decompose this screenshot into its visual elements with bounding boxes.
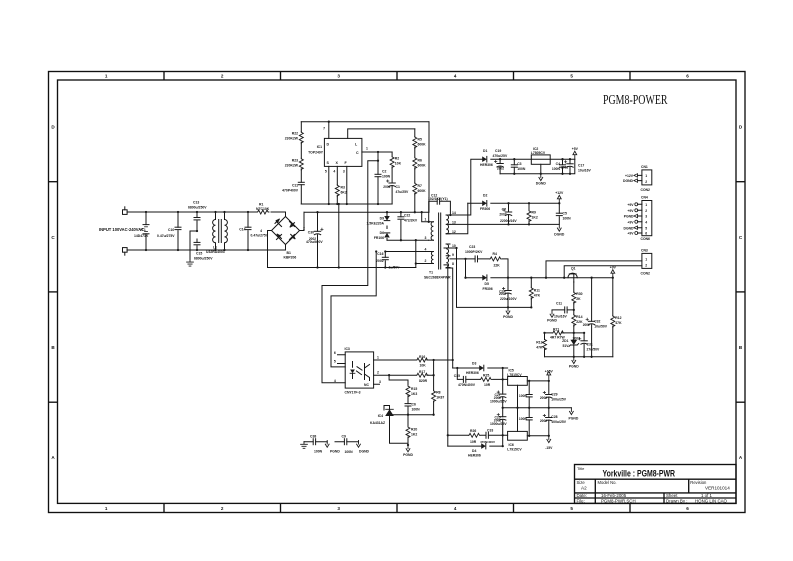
svg-text:C9: C9 — [342, 435, 346, 439]
svg-text:1: 1 — [645, 203, 647, 207]
svg-text:3: 3 — [337, 74, 340, 79]
svg-text:PGND: PGND — [569, 364, 579, 368]
svg-text:472/2KV: 472/2KV — [404, 219, 418, 223]
svg-text:1u/50V: 1u/50V — [389, 266, 401, 270]
svg-text:C29: C29 — [551, 392, 557, 396]
svg-text:2002: 2002 — [561, 166, 568, 170]
svg-text:10R: 10R — [484, 383, 491, 387]
svg-text:1 of 1: 1 of 1 — [701, 493, 713, 498]
svg-text:51V: 51V — [562, 344, 569, 348]
svg-text:2002: 2002 — [572, 337, 580, 341]
svg-text:2002: 2002 — [376, 259, 384, 263]
svg-text:470u/25V: 470u/25V — [493, 154, 508, 158]
svg-text:1: 1 — [425, 218, 427, 222]
svg-text:470P400V: 470P400V — [282, 189, 299, 193]
svg-text:6800u/250V: 6800u/250V — [188, 205, 207, 209]
svg-text:100N: 100N — [517, 167, 526, 171]
svg-text:2002: 2002 — [499, 292, 506, 296]
svg-text:PGM8-POWER: PGM8-POWER — [603, 93, 668, 108]
svg-text:6800u/250V: 6800u/250V — [194, 256, 213, 260]
svg-text:SEC2688X4PWR: SEC2688X4PWR — [424, 276, 451, 280]
svg-text:L1: L1 — [213, 245, 217, 249]
svg-text:4: 4 — [260, 229, 262, 233]
svg-text:CN4: CN4 — [641, 195, 648, 199]
svg-text:100N: 100N — [345, 450, 354, 454]
svg-text:C31: C31 — [587, 343, 593, 347]
svg-text:820R: 820R — [419, 379, 428, 383]
svg-text:8: 8 — [452, 262, 454, 266]
svg-text:0.47u/275V: 0.47u/275V — [157, 234, 175, 238]
svg-text:2002: 2002 — [309, 237, 316, 241]
svg-text:1: 1 — [645, 174, 647, 178]
svg-text:22K: 22K — [494, 263, 501, 267]
svg-text:PGND: PGND — [403, 453, 413, 457]
svg-text:4: 4 — [425, 248, 427, 252]
svg-text:R30: R30 — [576, 292, 582, 296]
svg-text:5: 5 — [645, 226, 647, 230]
svg-text:600K: 600K — [418, 164, 427, 168]
svg-text:D9: D9 — [380, 217, 384, 221]
svg-text:CON2: CON2 — [641, 188, 651, 192]
svg-text:C2: C2 — [382, 170, 386, 174]
svg-text:+9V: +9V — [627, 203, 634, 207]
svg-text:0.47u/275V: 0.47u/275V — [251, 234, 269, 238]
svg-text:4: 4 — [454, 74, 457, 79]
svg-text:10: 10 — [452, 244, 456, 248]
svg-text:C1: C1 — [396, 185, 400, 189]
svg-text:5: 5 — [325, 170, 327, 174]
svg-text:IC4: IC4 — [378, 414, 383, 418]
svg-text:470N/400V: 470N/400V — [458, 383, 476, 387]
svg-text:1: 1 — [366, 147, 368, 151]
svg-text:6K2: 6K2 — [341, 191, 347, 195]
svg-text:Title: Title — [577, 466, 585, 471]
svg-text:D: D — [327, 143, 330, 147]
svg-text:C13: C13 — [193, 201, 199, 205]
svg-text:12: 12 — [452, 230, 456, 234]
svg-text:C15: C15 — [196, 252, 202, 256]
svg-text:100N: 100N — [314, 449, 323, 453]
svg-text:R7: R7 — [418, 184, 422, 188]
svg-text:D2: D2 — [483, 194, 487, 198]
svg-text:1K2: 1K2 — [532, 216, 538, 220]
svg-text:470N/400V: 470N/400V — [480, 440, 495, 444]
svg-text:47K: 47K — [615, 321, 622, 325]
svg-text:2: 2 — [221, 74, 224, 79]
svg-text:Revision: Revision — [690, 480, 707, 485]
svg-text:R2: R2 — [395, 157, 399, 161]
svg-text:2002: 2002 — [494, 396, 501, 400]
svg-text:100N: 100N — [412, 408, 421, 412]
svg-text:2002: 2002 — [540, 419, 547, 423]
svg-text:10R: 10R — [470, 440, 477, 444]
svg-text:14D471K: 14D471K — [134, 234, 149, 238]
svg-text:6: 6 — [686, 74, 689, 79]
svg-text:T1: T1 — [429, 271, 433, 275]
svg-text:3: 3 — [343, 170, 345, 174]
svg-text:L7915CV: L7915CV — [507, 447, 522, 451]
svg-text:L7815CV: L7815CV — [507, 373, 522, 377]
svg-text:2: 2 — [221, 506, 224, 511]
svg-text:5: 5 — [334, 360, 336, 364]
svg-text:PGM8-PWR.SCH: PGM8-PWR.SCH — [601, 498, 636, 503]
svg-text:Size: Size — [577, 480, 586, 485]
svg-text:1000u/25V: 1000u/25V — [490, 422, 507, 426]
svg-text:+9V: +9V — [627, 220, 634, 224]
svg-text:2: 2 — [377, 371, 379, 375]
svg-text:600K: 600K — [418, 143, 427, 147]
svg-text:R20: R20 — [411, 428, 417, 432]
svg-text:4: 4 — [454, 506, 457, 511]
svg-text:13: 13 — [452, 220, 456, 224]
svg-text:R22: R22 — [292, 132, 298, 136]
svg-text:C23: C23 — [469, 245, 475, 249]
svg-text:C4: C4 — [556, 162, 560, 166]
svg-text:Yorkville : PGM8-PWR: Yorkville : PGM8-PWR — [603, 468, 676, 478]
svg-text:C16: C16 — [377, 252, 383, 256]
svg-text:2: 2 — [645, 264, 647, 268]
svg-text:C5: C5 — [563, 212, 567, 216]
svg-text:INPUT 100VAC-240VAC: INPUT 100VAC-240VAC — [99, 227, 144, 232]
svg-text:1: 1 — [377, 355, 379, 359]
svg-text:C7: C7 — [502, 208, 506, 212]
svg-text:FR106: FR106 — [374, 236, 384, 240]
svg-text:HER306: HER306 — [468, 454, 481, 458]
svg-text:D6: D6 — [380, 231, 384, 235]
svg-text:CNY17F-3: CNY17F-3 — [345, 390, 361, 394]
svg-text:C30: C30 — [308, 231, 314, 235]
svg-text:100N: 100N — [519, 417, 528, 421]
svg-text:R15: R15 — [411, 387, 417, 391]
svg-text:3: 3 — [337, 506, 340, 511]
svg-text:Sheet: Sheet — [666, 493, 678, 498]
svg-text:CON2: CON2 — [641, 271, 651, 275]
svg-text:R26: R26 — [470, 429, 476, 433]
svg-text:220u/100V: 220u/100V — [500, 297, 517, 301]
svg-text:C11: C11 — [292, 184, 298, 188]
svg-text:PGND: PGND — [503, 315, 513, 319]
svg-text:R23: R23 — [292, 159, 298, 163]
svg-text:C19: C19 — [495, 149, 501, 153]
svg-text:R8: R8 — [436, 391, 440, 395]
svg-text:PGND: PGND — [330, 449, 340, 453]
svg-text:TOP249Y: TOP249Y — [308, 151, 324, 155]
svg-text:10u/50V: 10u/50V — [594, 325, 608, 329]
svg-text:PGND: PGND — [547, 319, 557, 323]
svg-text:2K: 2K — [576, 297, 581, 301]
svg-text:1K2: 1K2 — [411, 433, 417, 437]
svg-text:R16: R16 — [419, 355, 425, 359]
svg-text:CON6: CON6 — [641, 237, 651, 241]
svg-text:FR306: FR306 — [483, 287, 493, 291]
svg-text:VER101014: VER101014 — [705, 486, 730, 491]
svg-text:IC6: IC6 — [509, 443, 514, 447]
svg-text:6: 6 — [334, 351, 336, 355]
svg-text:230K2W: 230K2W — [285, 137, 299, 141]
svg-text:CN1: CN1 — [641, 165, 648, 169]
svg-text:230K2W: 230K2W — [285, 164, 299, 168]
svg-text:ZD1: ZD1 — [562, 339, 569, 343]
svg-text:C28: C28 — [551, 415, 557, 419]
svg-text:DGND: DGND — [554, 233, 565, 237]
svg-text:R5: R5 — [418, 138, 422, 142]
svg-text:C35: C35 — [454, 374, 460, 378]
svg-text:C22: C22 — [404, 214, 410, 218]
svg-text:7: 7 — [323, 127, 325, 131]
svg-text:C6: C6 — [412, 403, 416, 407]
svg-text:R11: R11 — [534, 289, 540, 293]
svg-text:3: 3 — [379, 380, 381, 384]
svg-text:100u/25V: 100u/25V — [551, 397, 566, 401]
svg-text:D5: D5 — [485, 282, 489, 286]
svg-text:Model No.: Model No. — [598, 480, 617, 485]
svg-text:2002: 2002 — [494, 418, 501, 422]
svg-text:100N: 100N — [382, 175, 391, 179]
svg-text:DGND: DGND — [623, 179, 634, 183]
svg-text:2: 2 — [645, 209, 647, 213]
svg-text:KBP206: KBP206 — [284, 256, 297, 260]
svg-text:4: 4 — [334, 379, 336, 383]
svg-text:C38: C38 — [310, 435, 316, 439]
svg-text:FR306: FR306 — [480, 207, 490, 211]
svg-text:2002: 2002 — [497, 167, 504, 171]
svg-text:100N: 100N — [552, 167, 561, 171]
svg-text:File:: File: — [577, 498, 585, 503]
svg-text:14: 14 — [452, 211, 456, 215]
svg-text:Q1: Q1 — [571, 267, 576, 271]
svg-text:10K: 10K — [395, 162, 402, 166]
svg-text:C3: C3 — [517, 162, 521, 166]
svg-text:100N: 100N — [519, 394, 528, 398]
svg-text:VT1: VT1 — [140, 228, 146, 232]
svg-text:R21: R21 — [553, 327, 559, 331]
svg-text:2002: 2002 — [499, 213, 506, 217]
svg-text:47u/25V: 47u/25V — [396, 190, 410, 194]
svg-text:3: 3 — [425, 236, 427, 240]
svg-text:DGND: DGND — [536, 182, 547, 186]
svg-text:C32: C32 — [594, 320, 600, 324]
svg-text:R3: R3 — [341, 186, 345, 190]
svg-text:D1: D1 — [483, 149, 487, 153]
svg-text:NTC10K: NTC10K — [256, 207, 270, 211]
svg-text:R9: R9 — [532, 211, 536, 215]
svg-text:+12V: +12V — [555, 191, 564, 195]
svg-text:1K3: 1K3 — [411, 392, 417, 396]
svg-text:C11: C11 — [556, 302, 562, 306]
svg-text:9: 9 — [452, 253, 454, 257]
svg-text:IC3: IC3 — [345, 347, 350, 351]
svg-text:6: 6 — [645, 232, 647, 236]
svg-text:C17: C17 — [578, 164, 584, 168]
svg-text:HER306: HER306 — [480, 163, 493, 167]
svg-text:C14: C14 — [239, 228, 245, 232]
svg-text:1: 1 — [645, 258, 647, 262]
svg-text:A2: A2 — [581, 486, 587, 491]
svg-text:+12V: +12V — [625, 174, 634, 178]
svg-text:+9V: +9V — [610, 266, 617, 270]
svg-text:D3: D3 — [472, 362, 476, 366]
svg-text:R17: R17 — [419, 370, 425, 374]
svg-text:4: 4 — [333, 170, 335, 174]
svg-text:2: 2 — [645, 180, 647, 184]
svg-text:R12: R12 — [615, 316, 621, 320]
svg-text:16-Feb-2005: 16-Feb-2005 — [601, 493, 627, 498]
svg-text:5: 5 — [570, 506, 573, 511]
svg-text:DGND: DGND — [359, 449, 370, 453]
svg-text:C33: C33 — [487, 428, 493, 432]
svg-text:600K: 600K — [418, 189, 427, 193]
svg-text:2002: 2002 — [540, 396, 547, 400]
svg-text:PGND: PGND — [569, 416, 579, 420]
svg-text:1: 1 — [105, 506, 108, 511]
svg-text:10K: 10K — [420, 364, 427, 368]
svg-text:R25: R25 — [483, 373, 489, 377]
svg-text:2200u/16V: 2200u/16V — [500, 219, 517, 223]
svg-text:Date:: Date: — [577, 493, 588, 498]
svg-text:R13: R13 — [536, 341, 542, 345]
svg-text:4: 4 — [645, 220, 647, 224]
svg-text:5: 5 — [570, 74, 573, 79]
svg-text:27u/50V: 27u/50V — [587, 348, 601, 352]
svg-text:6: 6 — [686, 506, 689, 511]
svg-text:PGND: PGND — [624, 215, 634, 219]
svg-text:+9V: +9V — [627, 232, 634, 236]
svg-text:1: 1 — [105, 74, 108, 79]
svg-text:2002: 2002 — [583, 323, 590, 327]
svg-text:R4: R4 — [493, 252, 497, 256]
svg-text:3: 3 — [645, 215, 647, 219]
svg-text:+15V: +15V — [545, 370, 554, 374]
svg-text:47K: 47K — [534, 294, 541, 298]
svg-text:D4: D4 — [472, 449, 476, 453]
svg-text:R14: R14 — [576, 315, 582, 319]
svg-text:+5V: +5V — [572, 147, 579, 151]
svg-text:L7805CV: L7805CV — [531, 151, 546, 155]
svg-text:CN3: CN3 — [641, 248, 648, 252]
svg-text:R6: R6 — [418, 159, 422, 163]
svg-text:1000u/25V: 1000u/25V — [490, 399, 507, 403]
svg-text:1000P/2KV: 1000P/2KV — [465, 250, 483, 254]
svg-text:100N: 100N — [563, 217, 572, 221]
svg-text:1K87: 1K87 — [436, 396, 444, 400]
svg-text:HER306: HER306 — [466, 371, 479, 375]
svg-text:2002: 2002 — [383, 185, 390, 189]
svg-text:B1: B1 — [287, 251, 291, 255]
svg-text:-15V: -15V — [545, 446, 553, 450]
svg-text:10u/16V: 10u/16V — [578, 169, 592, 173]
svg-text:KA431AZ: KA431AZ — [370, 421, 385, 425]
svg-text:C10: C10 — [168, 228, 174, 232]
svg-text:C: C — [356, 151, 359, 155]
svg-text:100u/25V: 100u/25V — [551, 420, 566, 424]
svg-text:2: 2 — [303, 227, 305, 231]
svg-text:HONG LIN CAO: HONG LIN CAO — [695, 498, 728, 503]
svg-text:2: 2 — [425, 259, 427, 263]
svg-text:1.5KE220A: 1.5KE220A — [366, 222, 384, 226]
svg-text:IC1: IC1 — [317, 145, 322, 149]
svg-text:NC: NC — [364, 383, 369, 387]
svg-text:47K: 47K — [536, 346, 543, 350]
svg-text:DGND: DGND — [624, 226, 635, 230]
svg-text:+9V: +9V — [627, 209, 634, 213]
svg-text:102/1KV(Y1): 102/1KV(Y1) — [428, 197, 448, 201]
svg-text:Drawn By :: Drawn By : — [666, 498, 687, 503]
